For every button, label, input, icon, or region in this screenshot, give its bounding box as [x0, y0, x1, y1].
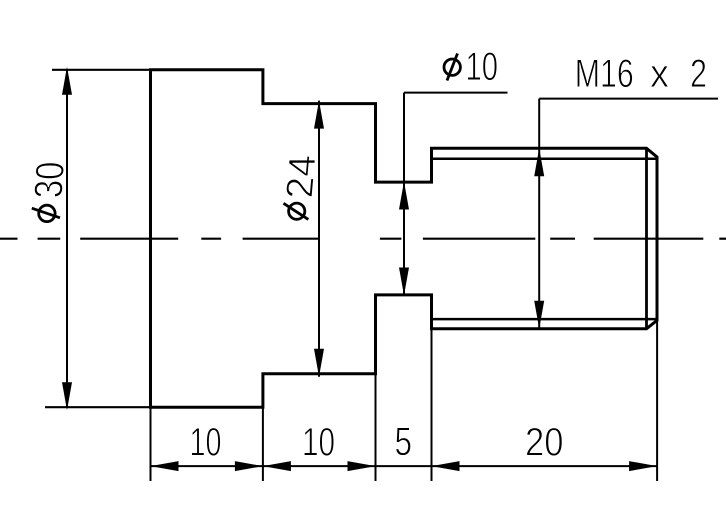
dim phi30 extension top: [52, 69, 151, 71]
svg-text:10: 10: [190, 421, 222, 465]
dim M16 arrow down: [534, 301, 544, 329]
dim phi24 arrow up: [314, 101, 324, 129]
extension line x262.9: [262, 408, 264, 481]
dim M16 leader: [539, 98, 718, 100]
dim phi10 arrow down: [399, 268, 409, 296]
arrow right at 375.5: [348, 461, 376, 471]
dim phi30 line: [66, 70, 68, 407]
thread root line bottom: [432, 318, 658, 321]
dim phi24 arrow down: [314, 349, 324, 377]
bottom chain dimension line: [151, 465, 658, 467]
dim phi10 arrow up: [399, 182, 409, 210]
svg-text:24: 24: [279, 155, 325, 199]
dim M16 arrow up: [534, 148, 544, 176]
svg-text:2: 2: [690, 52, 707, 96]
extension line x150.5: [150, 408, 152, 481]
svg-text:5: 5: [395, 420, 413, 464]
svg-text:10: 10: [302, 421, 335, 465]
arrow right at 657.1: [629, 461, 657, 471]
dim phi10 label: [444, 45, 498, 89]
dim phi30 arrow down: [62, 382, 72, 410]
extension line x431.5: [431, 329, 433, 481]
arrow right at 262.9: [235, 461, 263, 471]
dim phi30 extension bottom: [45, 406, 151, 408]
thread root line top: [432, 158, 658, 161]
arrow left at 262.9: [263, 461, 291, 471]
thread chamfer line: [645, 148, 648, 328]
extension line x657.1: [656, 320, 658, 481]
extension line x375.5: [375, 374, 377, 481]
dim M16 label: [575, 52, 707, 96]
centerline: [0, 238, 726, 240]
dim phi10 leader: [404, 92, 508, 94]
svg-text:30: 30: [27, 162, 73, 199]
dim phi24 line: [318, 101, 320, 377]
part outline: [151, 70, 658, 407]
arrow left at 150.5: [151, 461, 179, 471]
svg-text:20: 20: [525, 421, 564, 465]
dim phi30 label: [27, 162, 73, 222]
svg-text:M16: M16: [575, 52, 634, 96]
dim phi24 label: [279, 155, 325, 219]
arrow left at 431.5: [432, 461, 460, 471]
dim phi30 arrow up: [62, 67, 72, 95]
svg-text:x: x: [650, 52, 669, 96]
svg-text:10: 10: [466, 45, 499, 89]
